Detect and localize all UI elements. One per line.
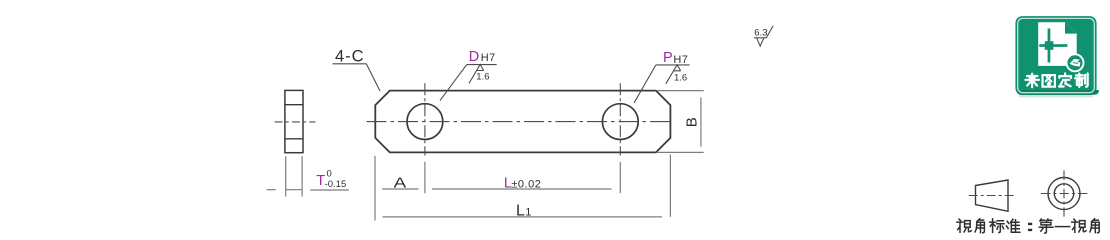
leader P slant to hole [634, 65, 656, 103]
badge icon: crosshair horizontal line on page [1039, 44, 1067, 47]
extension line bottom edge right (for B) [657, 151, 704, 153]
dimension T line segment left [267, 189, 276, 191]
svg-text:1: 1 [525, 206, 531, 218]
dimension L line [432, 188, 612, 190]
badge icon: circle emblem [1067, 54, 1084, 71]
extension line hole D center down [424, 162, 426, 193]
leader D underline [467, 64, 497, 66]
roughness symbol at P (triangle with tail) [666, 65, 681, 84]
side view chamfer edge top [285, 104, 303, 106]
plate outline (main view octagon) [375, 91, 670, 153]
badge icon: emblem glyph (stylized plane) [1070, 59, 1081, 67]
svg-text:-0.15: -0.15 [325, 179, 347, 190]
first angle symbol: vertical center line [1063, 170, 1065, 216]
vertical center line hole D [424, 83, 426, 155]
svg-text:H7: H7 [481, 52, 496, 64]
hole D (left circle) [407, 104, 443, 140]
badge shadow [1019, 95, 1093, 98]
side view extension line left [285, 156, 287, 196]
extension line plate right edge down [669, 155, 671, 217]
svg-text:P: P [663, 50, 673, 66]
badge text 来图定制 (white) [1025, 73, 1087, 87]
badge icon: crosshair vertical line [1048, 29, 1051, 63]
leader 4-C underline [333, 63, 367, 65]
svg-text:1.6: 1.6 [476, 71, 489, 82]
badge icon: center square [1045, 41, 1054, 50]
BOTTOM CJK TEXT 视角标准：第一视角 [957, 219, 1099, 233]
dimension A line [382, 188, 418, 190]
badge icon: document page with folded corner [1038, 22, 1077, 66]
first angle symbol: outer circle [1048, 178, 1080, 210]
badge background [1015, 16, 1096, 95]
side view outline [285, 90, 303, 152]
svg-text:A: A [394, 174, 407, 191]
svg-text:6.3: 6.3 [754, 28, 767, 39]
roughness symbol 6.3 (top, underline) [754, 37, 767, 39]
roughness symbol 6.3 slash [766, 26, 773, 38]
badge icon: fold triangle [1065, 22, 1077, 33]
first angle symbol: inner circle [1054, 184, 1073, 203]
roughness symbol 6.3 triangle [757, 38, 764, 46]
extension line hole P center down [619, 162, 621, 193]
side view center line [275, 121, 316, 123]
svg-text:±0.02: ±0.02 [511, 179, 541, 191]
svg-text:B: B [683, 117, 700, 127]
first angle symbol: frustum center line [969, 195, 1015, 197]
badge bottom bevel [1017, 90, 1099, 95]
svg-text:H7: H7 [673, 54, 688, 66]
extension line top edge right (for B) [657, 90, 704, 92]
svg-text:4-C: 4-C [335, 47, 365, 65]
dimension B line [700, 98, 702, 147]
side view extension line right [301, 156, 303, 196]
leader D slant to hole [440, 65, 467, 101]
svg-text:L: L [516, 202, 525, 219]
svg-text:D: D [469, 49, 479, 65]
side view chamfer edge bottom [285, 138, 303, 140]
first angle symbol: cone frustum [976, 180, 1009, 211]
dimension L1 line [383, 216, 663, 218]
dimension T line segment middle [286, 189, 302, 191]
BADGE 来图定制 [1015, 16, 1099, 97]
horizontal center line of plate [367, 121, 671, 123]
extension line plate left edge down [374, 156, 376, 221]
svg-text:1.6: 1.6 [674, 73, 687, 84]
leader P underline [656, 64, 690, 66]
roughness symbol at D (triangle with tail) [469, 65, 484, 84]
vertical center line hole P [619, 83, 621, 155]
dimension T line segment right (under label) [310, 189, 349, 191]
hole P (right circle) [602, 104, 638, 140]
leader 4-C slant to chamfer [366, 64, 380, 91]
first angle symbol: horizontal center line [1041, 193, 1088, 195]
badge inner white frame [1018, 18, 1095, 92]
